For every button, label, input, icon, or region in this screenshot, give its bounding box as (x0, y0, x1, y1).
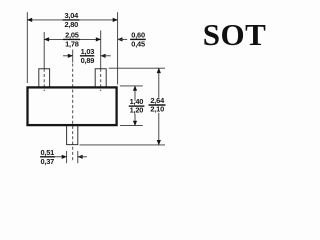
top-left lead outline (39, 69, 50, 87)
svg-text:1,78: 1,78 (65, 40, 79, 49)
svg-text:2,10: 2,10 (150, 105, 164, 114)
dimension 1,03/0,89 right tail (101, 55, 111, 57)
dimension 0,60/0,45 arrowhead pointing left at body-right extension (117, 37, 122, 41)
svg-text:3,04: 3,04 (65, 11, 80, 20)
dimension 3,04/2,80 fraction bar (63, 19, 80, 21)
extension line: body top edge right (for 1,40) (120, 85, 143, 87)
dimension 1,40/1,20 up arrowhead (133, 86, 137, 91)
svg-text:2,80: 2,80 (65, 20, 79, 29)
centerline: package central vertical axis (72, 50, 74, 63)
dimension 0,51/0,37 right arrowhead pointing left (77, 155, 82, 159)
svg-text:0,60: 0,60 (131, 31, 145, 40)
dimension 0,51/0,37 right tail (78, 156, 87, 158)
top-right lead outline (95, 69, 106, 87)
dimension 2,64/2,10 vertical line (158, 68, 160, 98)
centerline: left top lead (43, 69, 45, 91)
dimension 2,05/1,78 right arrowhead (shared with 0,60) (96, 37, 101, 41)
svg-text:1,20: 1,20 (130, 106, 144, 115)
svg-text:SOT: SOT (203, 17, 267, 52)
dimension 2,64/2,10 down arrowhead (157, 140, 161, 145)
svg-text:0,51: 0,51 (41, 148, 55, 157)
dimension 2,05/1,78 fraction bar (63, 38, 80, 40)
dimension 0,51/0,37 left leader (55, 156, 65, 158)
svg-text:0,89: 0,89 (81, 56, 95, 65)
dimension 3,04/2,80 right arrowhead (113, 18, 118, 22)
dimension 3,04/2,80 line (27, 19, 117, 21)
extension line: body bottom edge right (for 1,40) (120, 125, 143, 127)
package body (28, 87, 117, 125)
dimension 2,05/1,78 line (44, 38, 100, 40)
svg-text:1,03: 1,03 (81, 47, 95, 56)
dimension 0,60/0,45 leader tail (118, 38, 128, 40)
dimension 0,51/0,37 fraction bar (40, 156, 55, 158)
extension line: bottom lead tip level (for 2,64) (80, 144, 166, 146)
dimension 1,03/0,89 fraction bar (80, 55, 94, 57)
extension line: body left edge extended up (for 3,04) (26, 12, 28, 83)
extension line: bottom lead left edge extended down (for 0,51) (66, 151, 68, 163)
svg-text:0,37: 0,37 (41, 157, 55, 166)
dimension 2,64/2,10 fraction bar (149, 104, 166, 106)
bottom lead outline (67, 126, 78, 145)
centerline: right top lead (100, 69, 102, 91)
dimension 1,40/1,20 vertical line (134, 86, 136, 101)
dimension 2,05/1,78 left arrowhead (44, 37, 49, 41)
extension line: body right edge extended up (for 3,04 / 0,60) (117, 12, 119, 84)
extension line: left lead left edge extended up (for 2,05) (43, 32, 45, 69)
dimension 3,04/2,80 left arrowhead (27, 18, 32, 22)
extension line: top lead tip level (for 2,64) (109, 67, 165, 69)
svg-text:0,45: 0,45 (131, 40, 145, 49)
dimension 1,03/0,89 left arrowhead pointing right at central axis (68, 54, 73, 58)
dimension 0,60/0,45 fraction bar (130, 38, 146, 40)
dimension 1,03/0,89 left leader (63, 55, 72, 57)
extension line: bottom lead right edge extended down (for 0,51) (77, 151, 79, 163)
dimension 1,03/0,89 right arrowhead pointing left at lead centerline (100, 54, 105, 58)
dimension 2,64/2,10 up arrowhead (157, 68, 161, 73)
dimension 1,40/1,20 down arrowhead (133, 121, 137, 126)
dimension 0,51/0,37 left arrowhead pointing right (62, 155, 67, 159)
svg-text:2,05: 2,05 (65, 31, 79, 40)
dimension 1,40/1,20 fraction bar (129, 105, 145, 107)
extension line: right lead centerline extended up (for 2,05 / 1,03) (100, 31, 102, 69)
